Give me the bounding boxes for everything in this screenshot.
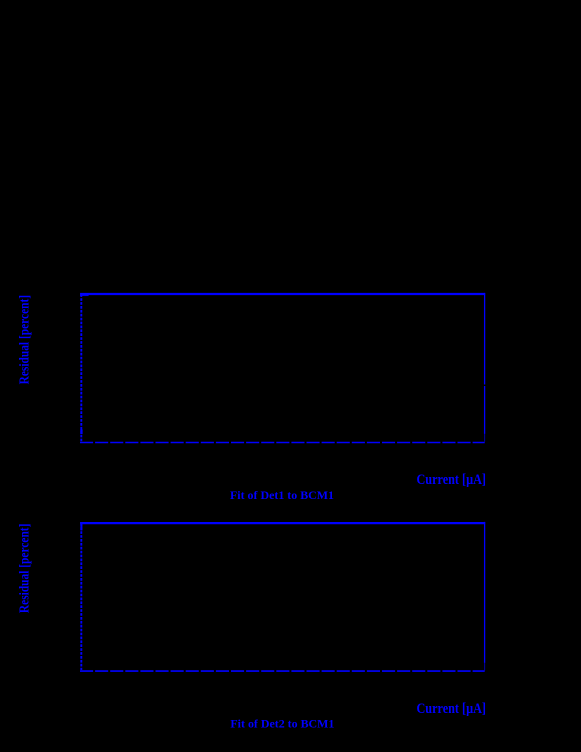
plot2 frame left edge (dashed) [80, 523, 82, 670]
plot2 frame right edge faint tail [484, 663, 486, 671]
plot1 frame top edge (solid) [80, 293, 485, 295]
plot1 frame right edge lower (solid) [484, 386, 486, 434]
plot2 frame bottom edge (dashed) [80, 670, 485, 672]
plot1 top-left corner tick [80, 295, 89, 296]
svg-text:Residual [percent]: Residual [percent] [16, 524, 31, 614]
plot1 frame right edge faint tail [484, 434, 486, 442]
plot1 frame left edge (dashed) [80, 294, 82, 441]
plot1 frame bottom edge (dashed) [80, 442, 485, 444]
plot2 frame right edge (solid) [484, 522, 486, 663]
plot1 frame right edge upper (solid) [484, 293, 486, 385]
plot1 left edge lower blob [80, 430, 82, 435]
svg-text:Current [µA]: Current [µA] [417, 701, 487, 717]
svg-text:Residual [percent]: Residual [percent] [16, 295, 31, 385]
svg-text:Current [µA]: Current [µA] [417, 472, 487, 488]
svg-text:Fit of Det2 to BCM1: Fit of Det2 to BCM1 [230, 717, 334, 731]
plot2 frame top edge (solid) [80, 522, 485, 524]
svg-text:Fit of Det1 to BCM1: Fit of Det1 to BCM1 [230, 488, 334, 502]
plot2 left edge upper blob [80, 524, 82, 531]
